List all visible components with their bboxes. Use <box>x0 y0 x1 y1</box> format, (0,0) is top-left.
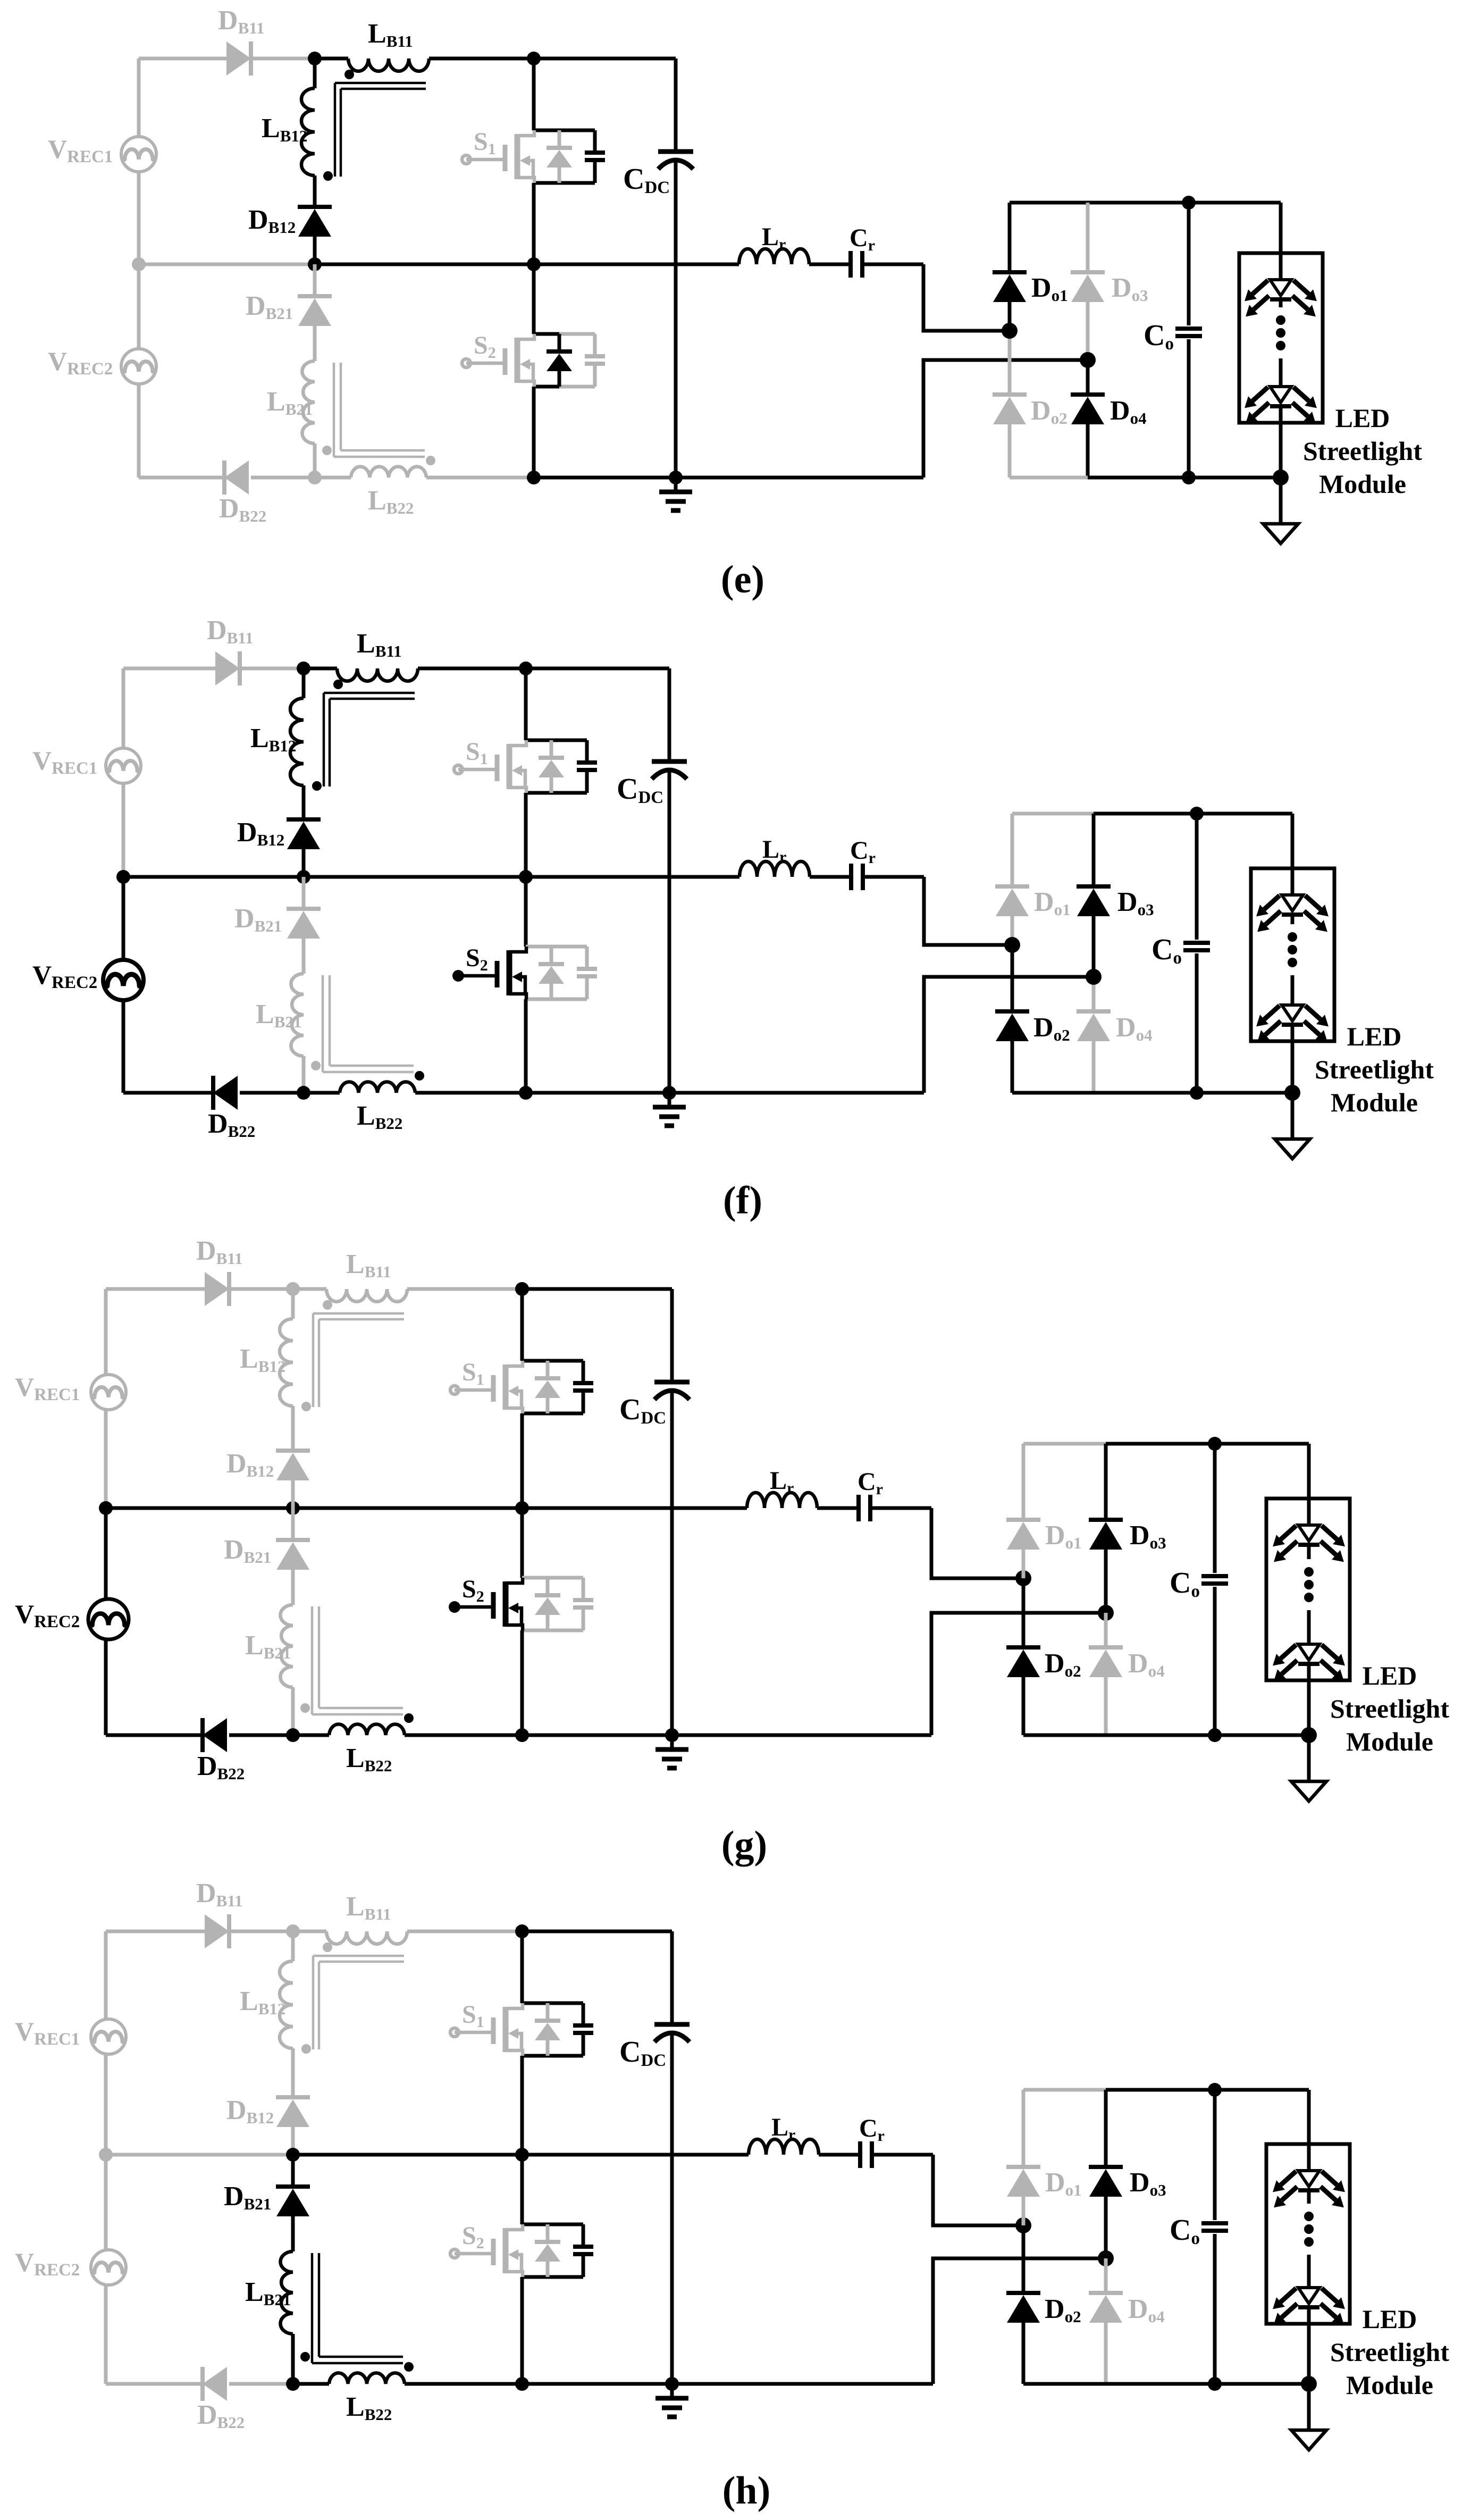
switch S1 snubber loop <box>526 739 587 742</box>
diode Do3 panel f <box>1092 814 1096 886</box>
switch S1 snubber capacitor <box>573 2023 593 2028</box>
AC source VREC2 panel h <box>91 2250 126 2285</box>
node mid S-column panel g <box>515 1501 529 1515</box>
MOSFET S2 <box>462 359 470 367</box>
switch S1 snubber loop <box>522 2002 583 2005</box>
node top-left panel h <box>286 1924 300 1938</box>
svg-text:Module: Module <box>1319 469 1406 499</box>
inductor LB22 panel g <box>293 1734 329 1737</box>
wire LED string panel e <box>1279 203 1283 280</box>
node output A panel f <box>1004 937 1020 953</box>
switch S2 snubber capacitor <box>585 354 605 358</box>
wire output top rail panel g <box>1023 1442 1106 1446</box>
svg-text:(e): (e) <box>721 558 764 601</box>
capacitor Cr panel h <box>819 2153 860 2157</box>
wire link A panel e <box>923 264 1010 331</box>
LED D1 panel g <box>1298 1525 1319 1541</box>
wire S1 source panel e <box>532 183 536 264</box>
chassis ground panel f <box>668 1093 671 1107</box>
switch S1 body diode <box>546 2003 550 2021</box>
inductor Lr panel g <box>747 1493 817 1508</box>
node mid diode-column panel e <box>308 257 322 271</box>
MOSFET S1 <box>454 765 463 774</box>
wire bottom-left rail panel e <box>139 476 224 480</box>
node mid-left panel g <box>99 1501 113 1515</box>
wire output bottom rail panel e <box>1010 476 1088 480</box>
LED streetlight module box panel f <box>1251 868 1334 1041</box>
inductor Lr panel f <box>739 861 810 877</box>
LED D2 panel g <box>1298 1644 1319 1660</box>
wire mid bus panel h <box>106 2153 293 2157</box>
wire top-left rail panel h <box>106 1930 205 1933</box>
diode Do4 panel f <box>1092 977 1096 1011</box>
wire top rail panel h <box>293 1930 326 1933</box>
node mid S-column panel f <box>519 870 533 884</box>
svg-text:(f): (f) <box>723 1179 762 1223</box>
node S1 top panel e <box>527 52 541 65</box>
wire S1 drain panel e <box>532 58 536 130</box>
node mid diode-column panel g <box>286 1501 300 1515</box>
wire left rail panel e <box>137 58 141 137</box>
AC source VREC1 panel e <box>121 137 156 172</box>
coupled core LB21/LB22 panel e <box>333 363 335 457</box>
wire Do1 grey lead over node panel g <box>1022 1550 1026 1578</box>
node bottom diode-column panel h <box>286 2377 300 2391</box>
switch S2 body diode <box>558 334 561 351</box>
node bottom S-column panel g <box>515 1728 529 1742</box>
node bottom diode-column panel f <box>297 1086 310 1100</box>
capacitor CDC panel g <box>670 1289 674 1382</box>
wire S2 drain panel e <box>532 264 536 334</box>
coupled core LB21/LB22 panel f <box>322 975 324 1072</box>
diode DB21 panel e <box>313 264 317 296</box>
wire link B panel h <box>933 2258 1106 2384</box>
LED D2 panel h <box>1298 2288 1319 2304</box>
signal ground panel e <box>1279 478 1283 524</box>
wire link A panel g <box>931 1508 1023 1578</box>
node CDC bottom panel g <box>665 1728 679 1742</box>
svg-text:(g): (g) <box>721 1823 767 1867</box>
wire S2 source panel f <box>524 999 528 1093</box>
node mid S-column panel h <box>515 2148 529 2162</box>
wire S2 source panel h <box>520 2277 524 2384</box>
node mid-left panel f <box>116 870 130 884</box>
diode Do2 panel f <box>1011 945 1014 1011</box>
switch S2 snubber capacitor <box>573 1598 593 1602</box>
diode Do3 panel e <box>1086 203 1090 272</box>
wire top-left rail panel g <box>106 1287 205 1291</box>
diode DB12 panel h <box>276 2095 310 2099</box>
diode DB12 panel f <box>287 817 321 822</box>
node Co top panel h <box>1208 2083 1222 2097</box>
wire S1 source panel h <box>520 2056 524 2155</box>
LED streetlight module box panel h <box>1266 2144 1350 2324</box>
MOSFET S1 <box>450 2028 459 2037</box>
wire bottom-left rail panel g <box>106 1734 203 1737</box>
diode Do1 panel e <box>1008 203 1012 272</box>
MOSFET S2 <box>452 970 464 982</box>
diode DB22 panel g <box>203 1718 227 1752</box>
node output A panel h <box>1015 2217 1031 2233</box>
node S1 top panel f <box>519 662 533 675</box>
LED string dots panel g <box>1304 1567 1314 1577</box>
diode DB21 panel h <box>291 2155 295 2187</box>
switch S1 body diode <box>558 130 561 148</box>
inductor LB21 panel f <box>302 939 306 974</box>
LED D2 panel e <box>1270 387 1291 403</box>
diode Do2 panel e <box>1008 331 1012 395</box>
switch S2 snubber loop <box>526 945 587 949</box>
node bottom S-column panel f <box>519 1086 533 1100</box>
wire Do4 grey lead over node panel g <box>1104 1613 1108 1647</box>
wire output top rail panel e <box>1010 201 1088 205</box>
MOSFET S1 <box>450 1386 459 1394</box>
wire left rail panel h <box>104 1931 108 2019</box>
phase dot LB22 panel f <box>415 1071 424 1081</box>
capacitor Cr panel f <box>810 875 851 879</box>
AC source VREC2 panel f <box>103 960 144 1000</box>
phase dot LB11 panel f <box>333 680 343 689</box>
svg-text:LED: LED <box>1335 403 1390 433</box>
LED streetlight module box panel e <box>1239 253 1323 423</box>
wire Do4 grey lead over node panel h <box>1104 2258 1108 2293</box>
phase dot LB22 panel g <box>404 1713 414 1723</box>
phase dot LB21 panel e <box>322 446 332 455</box>
AC source VREC2 panel g <box>88 1599 129 1639</box>
wire link B panel e <box>923 360 1088 478</box>
phase dot LB12 panel g <box>301 1402 311 1411</box>
capacitor CDC panel h <box>670 1931 674 2024</box>
wire output top rail panel f <box>1012 812 1094 816</box>
svg-text:Streetlight: Streetlight <box>1303 436 1422 466</box>
wire link A panel h <box>933 2155 1023 2225</box>
node CDC bottom panel e <box>669 471 683 484</box>
wire bottom-left rail panel f <box>123 1091 213 1095</box>
inductor LB22 panel f <box>304 1091 340 1095</box>
inductor LB21 panel e <box>313 326 317 361</box>
inductor LB11 panel f <box>337 668 418 681</box>
wire top-left rail panel e <box>139 57 226 61</box>
capacitor CDC panel e <box>674 58 678 152</box>
coupled core LB11/LB12 panel g <box>313 1312 404 1315</box>
chassis ground panel e <box>674 478 678 492</box>
svg-text:Module: Module <box>1331 1087 1418 1117</box>
node Co top panel e <box>1182 196 1196 210</box>
wire output bottom rail panel g <box>1023 1734 1106 1737</box>
node output A panel e <box>1002 323 1018 339</box>
node Co bottom panel f <box>1190 1086 1204 1100</box>
phase dot LB12 panel f <box>312 781 322 791</box>
phase dot LB21 panel f <box>311 1061 321 1070</box>
wire left rail panel f <box>122 668 125 748</box>
wire output bottom rail panel f <box>1012 1091 1094 1095</box>
LED D1 panel h <box>1298 2171 1319 2187</box>
node LED bottom panel f <box>1284 1085 1300 1101</box>
svg-text:(h): (h) <box>722 2469 770 2513</box>
chassis ground panel h <box>670 2384 674 2398</box>
node output B panel g <box>1098 1605 1114 1621</box>
wire S2 drain panel g <box>520 1508 524 1578</box>
node bottom diode-column panel e <box>308 471 322 484</box>
LED D1 panel f <box>1282 895 1303 911</box>
MOSFET S2 <box>449 1601 460 1613</box>
node output B panel h <box>1098 2250 1114 2266</box>
wire Do1 grey lead over node panel h <box>1022 2197 1026 2225</box>
node S1 top panel h <box>515 1924 529 1938</box>
inductor LB12 panel e <box>313 58 317 88</box>
inductor LB11 panel e <box>348 58 429 71</box>
switch S2 body diode <box>546 1578 550 1595</box>
wire mid bus panel e <box>139 263 315 266</box>
inductor LB21 panel g <box>291 1570 295 1605</box>
node output B panel e <box>1080 352 1096 368</box>
switch S1 snubber capacitor <box>573 1381 593 1385</box>
coupled core LB11/LB12 panel f <box>324 692 415 694</box>
capacitor Co panel h <box>1213 2090 1217 2220</box>
wire S1 source panel g <box>520 1413 524 1508</box>
capacitor Cr panel e <box>809 263 851 266</box>
inductor LB11 panel g <box>326 1289 407 1302</box>
wire S2 drain panel f <box>524 877 528 947</box>
inductor LB12 panel f <box>302 668 306 698</box>
node top-left panel g <box>286 1282 300 1296</box>
wire top rail panel e <box>315 57 348 61</box>
node LED bottom panel h <box>1301 2376 1317 2392</box>
svg-text:Streetlight: Streetlight <box>1315 1054 1434 1084</box>
node mid diode-column panel f <box>297 870 310 884</box>
node LED bottom panel e <box>1273 470 1289 485</box>
node Co bottom panel e <box>1182 471 1196 484</box>
switch S1 snubber loop <box>522 1359 583 1363</box>
node bottom S-column panel e <box>527 471 541 484</box>
wire S2 drain panel h <box>520 2155 524 2224</box>
diode DB11 panel g <box>205 1272 229 1306</box>
inductor LB22 panel e <box>315 476 351 480</box>
wire link B panel f <box>924 977 1094 1093</box>
wire top rail panel f <box>304 667 337 671</box>
capacitor Co panel g <box>1213 1444 1217 1573</box>
coupled core LB21/LB22 panel h <box>311 2253 314 2363</box>
diode DB11 panel h <box>205 1914 229 1948</box>
switch S1 snubber loop <box>534 129 595 132</box>
diode DB22 panel f <box>213 1076 238 1110</box>
wire bottom rail panel f <box>526 1091 924 1095</box>
diode DB12 panel e <box>298 205 332 209</box>
diode Do1 panel g <box>1022 1444 1026 1520</box>
phase dot LB11 panel e <box>344 70 354 79</box>
phase dot LB21 panel g <box>300 1703 310 1713</box>
switch S1 body diode <box>550 740 553 758</box>
node bottom S-column panel h <box>515 2377 529 2391</box>
LED string dots panel h <box>1304 2212 1314 2221</box>
wire S1 drain panel g <box>520 1289 524 1361</box>
switch S2 body diode <box>546 2224 550 2242</box>
signal ground panel g <box>1307 1735 1311 1781</box>
inductor LB21 panel h <box>291 2216 295 2251</box>
svg-text:Streetlight: Streetlight <box>1330 2337 1449 2367</box>
inductor LB22 panel h <box>293 2382 329 2386</box>
phase dot LB22 panel h <box>404 2362 414 2372</box>
wire mid bus panel f <box>123 875 304 879</box>
phase dot LB12 panel h <box>301 2044 311 2054</box>
phase dot LB12 panel e <box>323 171 333 181</box>
LED D1 panel e <box>1270 280 1291 296</box>
switch S2 body diode <box>550 947 553 964</box>
coupled core LB21/LB22 panel g <box>311 1606 314 1714</box>
inductor LB11 panel h <box>326 1931 407 1944</box>
wire LED string panel h <box>1307 2090 1311 2171</box>
diode DB21 panel f <box>302 877 306 909</box>
inductor LB12 panel h <box>291 1931 295 1961</box>
diode DB11 panel e <box>226 41 251 76</box>
node mid S-column panel e <box>527 257 541 271</box>
coupled core LB11/LB12 panel h <box>313 1955 404 1957</box>
node CDC bottom panel f <box>662 1086 676 1100</box>
wire S1 drain panel f <box>524 668 528 740</box>
phase dot LB11 panel h <box>323 1943 332 1952</box>
wire left rail panel g <box>104 1289 108 1375</box>
wire top-left rail panel f <box>123 667 215 671</box>
wire DB12/DB21 grey lead over node panel g <box>291 1481 295 1539</box>
wire output bottom rail panel h <box>1023 2382 1106 2386</box>
LED streetlight module box panel g <box>1266 1498 1350 1680</box>
wire S2 source panel e <box>532 387 536 478</box>
node mid-left panel e <box>132 257 146 271</box>
node output A panel g <box>1015 1570 1031 1586</box>
signal ground panel h <box>1307 2384 1311 2430</box>
svg-text:LED: LED <box>1363 1661 1417 1690</box>
wire bottom rail panel h <box>522 2382 933 2386</box>
diode Do3 panel g <box>1104 1444 1108 1520</box>
diode DB11 panel f <box>215 651 240 685</box>
svg-text:Module: Module <box>1346 2370 1433 2400</box>
diode Do4 panel e <box>1086 360 1090 395</box>
inductor Lr panel e <box>739 249 809 264</box>
diode Do2 panel g <box>1022 1578 1026 1647</box>
diode Do1 panel h <box>1022 2090 1026 2167</box>
MOSFET S1 <box>462 155 470 164</box>
diode DB12 panel g <box>276 1449 310 1453</box>
wire S1 drain panel h <box>520 1931 524 2003</box>
diode Do1 panel f <box>1011 814 1014 886</box>
wire S2 source panel g <box>520 1630 524 1735</box>
node Co bottom panel h <box>1208 2377 1222 2391</box>
node S1 top panel g <box>515 1282 529 1296</box>
wire bottom-left rail panel h <box>106 2382 203 2386</box>
switch S2 snubber capacitor <box>577 967 597 971</box>
MOSFET S2 <box>450 2249 459 2258</box>
LED D2 panel f <box>1282 1005 1303 1021</box>
node mid-left panel h <box>99 2148 113 2162</box>
phase dot LB21 panel h <box>300 2352 310 2362</box>
wire LED string panel f <box>1291 814 1295 895</box>
diode DB22 panel h <box>203 2367 227 2401</box>
diode Do2 panel h <box>1022 2225 1026 2293</box>
wire mid bus panel g <box>106 1506 293 1510</box>
diode Do4 panel g <box>1104 1613 1108 1647</box>
AC source VREC1 panel f <box>106 748 141 783</box>
switch S1 body diode <box>546 1361 550 1378</box>
chassis ground panel g <box>670 1735 674 1749</box>
svg-text:LED: LED <box>1347 1022 1402 1051</box>
phase dot LB22 panel e <box>426 456 435 465</box>
node CDC bottom panel h <box>665 2377 679 2391</box>
wire S1 source panel f <box>524 793 528 877</box>
switch S2 snubber loop <box>522 1576 583 1580</box>
switch S1 snubber capacitor <box>585 150 605 155</box>
wire top rail panel g <box>293 1287 326 1291</box>
phase dot LB11 panel g <box>323 1300 332 1310</box>
AC source VREC2 panel e <box>121 349 156 384</box>
node top-left panel e <box>308 52 322 65</box>
node Co top panel g <box>1208 1437 1222 1451</box>
wire bottom rail panel e <box>534 476 923 480</box>
node bottom diode-column panel g <box>286 1728 300 1742</box>
svg-text:Module: Module <box>1346 1727 1433 1756</box>
wire bottom rail panel g <box>522 1734 931 1737</box>
wire link A panel f <box>924 877 1012 945</box>
inductor LB12 panel g <box>291 1289 295 1319</box>
svg-text:LED: LED <box>1363 2304 1417 2334</box>
wire output top rail panel h <box>1023 2088 1106 2092</box>
diode Do3 panel h <box>1104 2090 1108 2167</box>
switch S1 snubber capacitor <box>577 760 597 765</box>
switch S2 snubber capacitor <box>573 2245 593 2249</box>
node Co bottom panel g <box>1208 1728 1222 1742</box>
capacitor Co panel f <box>1195 814 1199 940</box>
node top-left panel f <box>297 662 310 675</box>
signal ground panel f <box>1291 1093 1295 1139</box>
switch S2 snubber loop <box>522 2223 583 2226</box>
coupled core LB11/LB12 panel e <box>335 82 426 85</box>
LED string dots panel f <box>1288 932 1297 942</box>
diode DB22 panel e <box>224 461 249 495</box>
capacitor Co panel e <box>1187 203 1191 325</box>
AC source VREC1 panel g <box>91 1375 126 1410</box>
node mid diode-column panel h <box>286 2148 300 2162</box>
AC source VREC1 panel h <box>91 2019 126 2054</box>
capacitor CDC panel f <box>668 668 671 761</box>
capacitor Cr panel g <box>817 1506 859 1510</box>
node output B panel f <box>1086 969 1102 985</box>
node LED bottom panel g <box>1301 1727 1317 1743</box>
wire LED string panel g <box>1307 1444 1311 1525</box>
inductor Lr panel h <box>749 2139 819 2155</box>
LED string dots panel e <box>1276 315 1285 325</box>
switch S2 snubber loop <box>534 332 559 336</box>
diode Do4 panel h <box>1104 2258 1108 2293</box>
svg-text:Streetlight: Streetlight <box>1330 1694 1449 1723</box>
wire link B panel g <box>931 1613 1106 1735</box>
node Co top panel f <box>1190 807 1204 821</box>
diode DB21 panel g <box>291 1508 295 1540</box>
